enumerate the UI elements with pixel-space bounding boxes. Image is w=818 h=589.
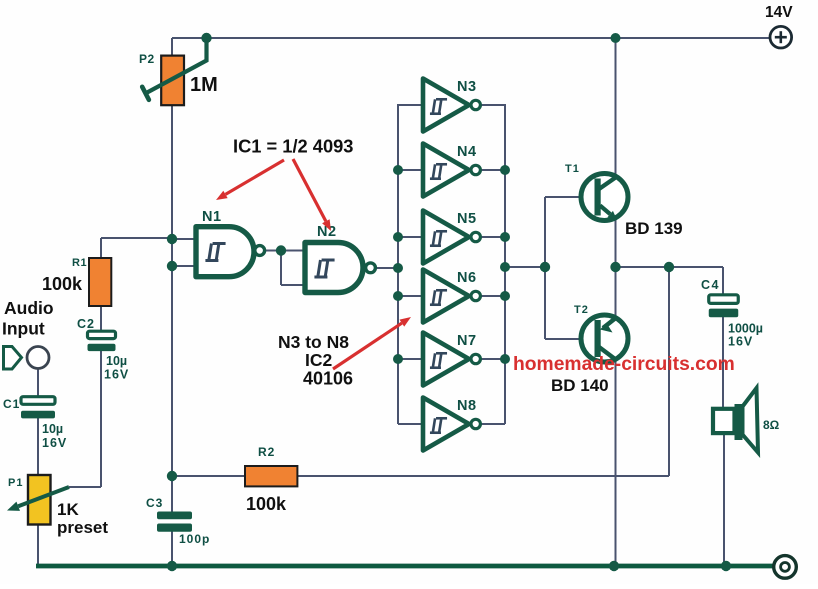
label T2 (574, 304, 589, 316)
wire C3 bottom to ground rail (171, 530, 173, 567)
wire T1 base stub (545, 196, 597, 198)
wire N1 upper input stub (172, 238, 196, 240)
node output bus N5 (500, 232, 510, 242)
label C1 (3, 397, 20, 411)
node ground rail speaker (721, 561, 731, 571)
node output bus N4 (500, 165, 510, 175)
svg-text:homemade-circuits.com: homemade-circuits.com (513, 354, 735, 375)
potentiometer P2 wiper arm (142, 42, 206, 100)
wire T1 emitter / T2 emitter vertical (615, 219, 617, 318)
svg-text:BD 140: BD 140 (551, 376, 609, 395)
value label 100k (R1) (42, 274, 83, 294)
label T1 (565, 163, 580, 175)
label N5 (457, 211, 477, 227)
svg-text:IC1 = 1/2 4093: IC1 = 1/2 4093 (233, 136, 353, 157)
terminal +14V (770, 26, 792, 48)
transistor T1 BD139 NPN (581, 174, 628, 221)
wire T1 collector to top rail (615, 38, 617, 176)
node output / R2 feedback (664, 262, 674, 272)
wire R1 branch from left vertical (101, 238, 172, 332)
wire speaker to ground rail (723, 432, 725, 566)
value label 1000u (728, 322, 763, 336)
svg-text:N8: N8 (457, 398, 477, 414)
capacitor C2 10u 16V (88, 331, 116, 351)
value label 8 ohm (763, 418, 780, 432)
schmitt inverter N8 (423, 398, 480, 451)
label C2 (77, 317, 95, 331)
value label 16V (C4) (728, 335, 753, 349)
wire C3 top connection (171, 476, 173, 513)
annotation arrow to N2 (293, 159, 331, 231)
value label 16V (C1) (42, 436, 67, 450)
svg-text:N7: N7 (457, 333, 477, 349)
audio input terminal circle (27, 347, 49, 369)
wire output bus to transistor base bus (505, 266, 545, 268)
NAND gate N1 (196, 227, 265, 277)
wire C2 bottom down to P1 wiper link (69, 350, 101, 488)
svg-text:40106: 40106 (303, 369, 353, 389)
svg-text:preset: preset (57, 518, 108, 537)
svg-text:N5: N5 (457, 211, 477, 227)
node input bus N7 (393, 354, 403, 364)
wire inverter input bus (left) (397, 104, 399, 424)
wire inverter input stubs (398, 105, 424, 424)
value label BD 139 (625, 219, 683, 238)
svg-text:R2: R2 (258, 445, 275, 459)
label 14V (765, 4, 793, 21)
wire left vertical from top rail through P2 down to R2/C3 node (171, 38, 173, 476)
NAND gate N2 (305, 243, 375, 293)
node input bus N4 (393, 165, 403, 175)
value label 10u (C2) (106, 354, 127, 368)
value label 10u (C1) (42, 422, 63, 436)
wire inverter output stubs (480, 105, 505, 424)
svg-text:P1: P1 (8, 477, 23, 489)
terminal 0V (774, 556, 797, 579)
value label 100k (R2) (246, 494, 287, 514)
svg-text:1M: 1M (190, 74, 218, 96)
node ground rail T2 collector (609, 561, 619, 571)
label P1 (8, 477, 23, 489)
value label 1M (190, 74, 218, 96)
label R1 (72, 257, 87, 269)
label N4 (457, 144, 477, 160)
svg-text:BD 139: BD 139 (625, 219, 683, 238)
capacitor C4 1000u 16V (709, 295, 739, 317)
watermark homemade-circuits.com (513, 354, 735, 375)
label N7 (457, 333, 477, 349)
wire audio input to C1 (37, 368, 39, 399)
wire inverter output bus (right) (504, 104, 506, 424)
svg-text:IC2: IC2 (305, 350, 333, 370)
node top rail / P2 wiper (201, 33, 211, 43)
value label 100p (179, 532, 210, 546)
schmitt inverter N6 (423, 270, 480, 323)
annotation arrow to N1 (216, 160, 284, 200)
wire R2 feedback vertical (668, 267, 670, 476)
node output bus base feed (500, 262, 510, 272)
node ground rail C3 (167, 561, 177, 571)
svg-text:N4: N4 (457, 144, 477, 160)
wire T2 collector to ground rail (615, 359, 617, 566)
node input bus N6 (393, 291, 403, 301)
node top rail / T1 collector (611, 33, 621, 43)
preset P1 body 1K (28, 475, 51, 525)
node T1 emitter output (610, 262, 620, 272)
svg-text:100k: 100k (42, 274, 83, 294)
annotation IC1 = 1/2 4093 (233, 136, 353, 157)
node N1 lower input (167, 261, 177, 271)
svg-text:N6: N6 (457, 270, 477, 286)
svg-text:8Ω: 8Ω (763, 418, 780, 432)
svg-text:16V: 16V (42, 436, 67, 450)
svg-text:16V: 16V (104, 368, 129, 382)
svg-text:14V: 14V (765, 4, 793, 21)
svg-text:N1: N1 (202, 209, 222, 225)
node base bus junction (540, 262, 550, 272)
svg-text:Audio: Audio (4, 298, 54, 318)
value label BD 140 (551, 376, 609, 395)
annotation N3 to N8 IC2 40106 (278, 332, 353, 389)
svg-text:N3: N3 (457, 79, 477, 95)
label C3 (146, 496, 163, 510)
wire R1 bottom to C2 top (100, 306, 102, 333)
svg-text:Input: Input (2, 319, 45, 339)
svg-text:16V: 16V (728, 335, 753, 349)
svg-text:P2: P2 (139, 52, 155, 66)
node N1 upper input (167, 234, 177, 244)
svg-text:10µ: 10µ (42, 422, 63, 436)
preset P1 wiper arrow (7, 487, 69, 511)
wire C4 bottom to speaker (722, 316, 724, 411)
value label 1K preset (57, 500, 108, 537)
node input bus N2 feed (393, 263, 403, 273)
svg-text:N3 to N8: N3 to N8 (278, 332, 349, 352)
svg-text:T1: T1 (565, 163, 580, 175)
svg-text:1K: 1K (57, 500, 79, 519)
resistor R2 100k body (245, 466, 297, 486)
capacitor C3 100p (157, 512, 192, 532)
value label 16V (C2) (104, 368, 129, 382)
label N8 (457, 398, 477, 414)
wire N2 output to inverter input bus (376, 267, 399, 269)
audio input jack symbol (4, 347, 22, 370)
svg-text:1000µ: 1000µ (728, 322, 763, 336)
schmitt inverter N3 (423, 79, 480, 132)
schmitt inverter N4 (423, 144, 480, 197)
wire C1 bottom to P1 top (37, 417, 39, 477)
node input bus N5 (393, 232, 403, 242)
svg-text:10µ: 10µ (106, 354, 127, 368)
annotation arrow to N6 (333, 317, 411, 369)
label C4 (701, 278, 720, 292)
wire transistor base bus vertical (544, 197, 546, 339)
label P2 (139, 52, 155, 66)
svg-text:C2: C2 (77, 317, 95, 331)
label N2 (317, 224, 337, 240)
wire ground rail 0V (36, 564, 774, 569)
resistor R1 100k body (89, 258, 111, 306)
schmitt inverter N7 (423, 333, 480, 386)
svg-text:C1: C1 (3, 397, 20, 411)
label N1 (202, 209, 222, 225)
wire T2 base stub (545, 338, 597, 340)
node output bus N6 (500, 291, 510, 301)
wire N2 tied inputs loop (281, 251, 305, 286)
node R2 / C3 / left vertical (167, 471, 177, 481)
node N1 output / N2 inputs (276, 245, 286, 255)
svg-text:R1: R1 (72, 257, 87, 269)
svg-text:100p: 100p (179, 532, 210, 546)
wire top supply rail 14V (172, 37, 769, 39)
wire output node run to C4 (616, 267, 724, 297)
transistor T2 BD140 PNP (581, 315, 628, 362)
svg-text:100k: 100k (246, 494, 287, 514)
label R2 (258, 445, 275, 459)
node output bus N7 (500, 354, 510, 364)
svg-text:C3: C3 (146, 496, 163, 510)
capacitor C1 10u 16V (21, 397, 55, 419)
wire R2 feedback horizontal (172, 475, 669, 477)
svg-text:T2: T2 (574, 304, 589, 316)
wire P1 bottom to ground rail (37, 523, 39, 566)
label Audio Input (2, 298, 54, 339)
speaker 8 ohm (713, 388, 758, 453)
wire N1 output to node (264, 250, 283, 252)
svg-text:C4: C4 (701, 278, 720, 292)
schmitt inverter N5 (423, 211, 480, 264)
potentiometer P2 body 1M (161, 56, 184, 106)
wire N1 lower input stub (172, 265, 196, 267)
label N3 (457, 79, 477, 95)
label N6 (457, 270, 477, 286)
